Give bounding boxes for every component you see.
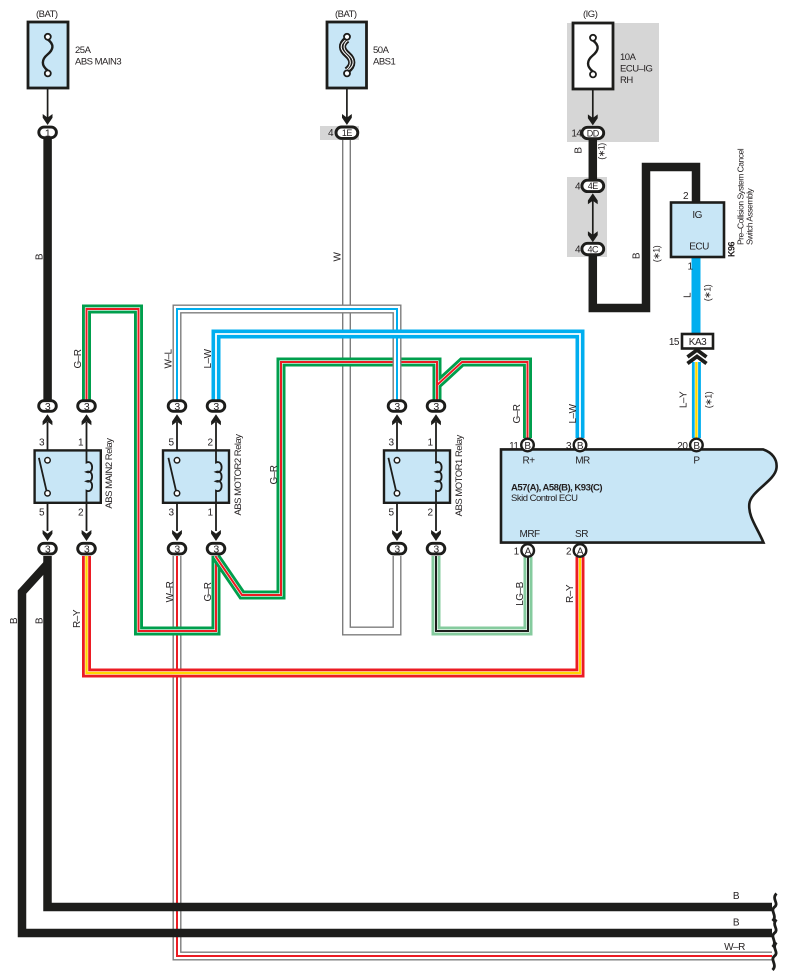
wire G-R hairpin: ABS MAIN2 relay pin 1 up, over, down to ABS MOTOR2 relay pin 1 (bottom) [87, 309, 217, 631]
wire LG-B from Skid Control ECU MRF down, U-turn to ABS MOTOR1 relay pin 2 [436, 556, 528, 631]
break symbol wire W-R right edge [773, 943, 777, 971]
Skid Control ECU box A57(A) A58(B) K93(C) [501, 449, 777, 542]
svg-text:ECU–IG: ECU–IG [620, 64, 652, 75]
shield: connector 1E gray background [320, 126, 359, 140]
svg-text:B: B [34, 253, 45, 260]
wire L from Pre-Collision switch pin 1 to connector KA3 [692, 256, 701, 334]
fuse 50A ABS1 [327, 9, 396, 88]
ECU pin 3 B (MR) [566, 439, 586, 452]
wire L-W from ABS MOTOR2 relay pin 2 up and over to Skid Control ECU MR [216, 334, 580, 438]
svg-text:G–R: G–R [73, 349, 84, 368]
svg-text:3: 3 [213, 544, 219, 556]
svg-text:B: B [524, 441, 531, 452]
svg-text:RH: RH [620, 75, 633, 86]
svg-text:IG: IG [692, 210, 702, 221]
wire B ground branch 2 (outer) diagonal splice to right edge [22, 564, 772, 933]
svg-text:(∗1): (∗1) [702, 284, 712, 301]
svg-text:LG–B: LG–B [515, 581, 526, 605]
fuse 10A ECU-IG RH [573, 9, 652, 89]
svg-text:B: B [577, 441, 584, 452]
svg-text:(IG): (IG) [583, 9, 598, 20]
svg-text:4E: 4E [588, 181, 599, 191]
svg-text:W–R: W–R [724, 942, 745, 953]
ECU pin 2 A (SR) [566, 544, 586, 557]
svg-text:Skid Control ECU: Skid Control ECU [511, 493, 578, 504]
svg-text:20: 20 [677, 441, 688, 452]
svg-text:W–L: W–L [163, 349, 174, 369]
arrow into connector 1 [43, 114, 53, 125]
svg-text:G–R: G–R [269, 465, 280, 484]
svg-text:ABS MOTOR2 Relay: ABS MOTOR2 Relay [233, 434, 244, 516]
svg-text:1: 1 [45, 127, 51, 139]
svg-text:KA3: KA3 [689, 337, 707, 348]
ECU pin 11 B (R+) [509, 439, 534, 452]
svg-text:R–Y: R–Y [565, 584, 576, 603]
svg-text:14: 14 [571, 128, 582, 139]
svg-text:ECU: ECU [689, 242, 709, 253]
svg-text:W–R: W–R [165, 581, 176, 602]
svg-text:W: W [332, 251, 343, 261]
svg-text:B: B [34, 617, 45, 624]
svg-text:3: 3 [174, 544, 180, 556]
svg-text:B: B [733, 891, 740, 902]
svg-text:ABS MOTOR1 Relay: ABS MOTOR1 Relay [454, 435, 465, 517]
wire R-Y from ABS MAIN2 relay pin 2 down, across to Skid Control ECU SR [87, 556, 581, 673]
leader wire from fuse ABS1 [346, 77, 348, 119]
svg-text:3: 3 [45, 544, 51, 556]
arrow into connector DD [588, 114, 598, 125]
relay ABS MOTOR2 [163, 414, 244, 541]
svg-text:ABS1: ABS1 [373, 57, 396, 68]
svg-text:3: 3 [84, 544, 90, 556]
fuse 25A ABS MAIN3 [28, 9, 121, 88]
svg-text:(∗1): (∗1) [596, 143, 606, 160]
link wire between 4E and 4C [592, 200, 594, 236]
svg-text:B: B [631, 252, 642, 259]
ECU pin 20 B (P) [677, 439, 702, 452]
svg-text:3: 3 [394, 544, 400, 556]
svg-text:A: A [577, 546, 584, 557]
relay ABS MAIN2 [35, 414, 115, 541]
wire B from connector 4C to Pre-Collision switch pin 2 [593, 167, 696, 308]
svg-text:Switch Assembly: Switch Assembly [745, 187, 755, 245]
wire W from fuse ABS1 connector 1E down, U-turn to ABS MOTOR1 relay pin 5 [347, 140, 398, 631]
svg-text:15: 15 [669, 337, 680, 348]
svg-text:L–W: L–W [568, 403, 579, 423]
connector 1 [39, 127, 57, 139]
svg-text:L–W: L–W [203, 348, 214, 368]
svg-text:A: A [525, 546, 532, 557]
wire B from fuse ABS MAIN3 to ABS MAIN2 relay pin 3 [43, 139, 52, 400]
svg-text:(BAT): (BAT) [36, 9, 58, 20]
svg-text:B: B [733, 918, 740, 929]
svg-text:MRF: MRF [520, 529, 541, 540]
svg-text:10A: 10A [620, 52, 637, 63]
wire B from connector DD to connector 4E [589, 139, 598, 180]
arrow up into connector 4E [588, 193, 598, 204]
svg-text:MR: MR [575, 455, 590, 466]
svg-text:25A: 25A [75, 45, 92, 56]
connector 4C pin 4 [575, 243, 604, 255]
Pre-Collision System Cancel Switch Assembly K96 box [671, 148, 755, 272]
svg-text:R+: R+ [522, 455, 535, 466]
ECU pin 1 A (MRF) [514, 544, 534, 557]
leader wire from fuse ABS MAIN3 [47, 77, 49, 119]
wire L-Y from connector KA3 to Skid Control ECU P [692, 362, 701, 438]
svg-text:3: 3 [433, 544, 439, 556]
svg-text:R–Y: R–Y [72, 609, 83, 628]
svg-text:G–R: G–R [512, 404, 523, 423]
connector 3 ovals above/below ABS MOTOR2 relay [168, 401, 225, 556]
svg-text:DD: DD [587, 128, 600, 138]
leader wire from fuse ECU-IG [592, 78, 594, 119]
svg-text:ABS MAIN3: ABS MAIN3 [75, 57, 121, 68]
break symbol wire B2 right edge [773, 920, 777, 948]
wire G-R branch: ABS MOTOR2 relay pin 1 to ABS MOTOR1 relay pin 1 and Skid Control ECU R+ [216, 362, 528, 595]
svg-text:B: B [693, 441, 700, 452]
shield: ECU-IG fuse block gray background [567, 23, 659, 142]
svg-text:B: B [573, 147, 584, 154]
svg-text:11: 11 [509, 441, 519, 452]
svg-text:1E: 1E [342, 128, 353, 138]
svg-text:3: 3 [84, 401, 90, 413]
connector 4E pin 4 [575, 180, 604, 192]
break symbol wire B1 right edge [773, 894, 777, 922]
arrow down into connector 4C [588, 231, 598, 242]
wire W-L from ABS MOTOR2 relay pin 5 up and over to ABS MOTOR1 relay pin 3 [177, 309, 397, 400]
svg-text:4C: 4C [588, 244, 600, 254]
svg-text:3: 3 [174, 401, 180, 413]
svg-text:3: 3 [213, 401, 219, 413]
arrow into connector 1E [342, 114, 352, 125]
connector 1E pin 4 [328, 127, 358, 139]
svg-text:(BAT): (BAT) [335, 9, 357, 20]
svg-text:3: 3 [433, 401, 439, 413]
shield: connector 4E/4C gray background [567, 177, 607, 257]
svg-text:B: B [9, 617, 20, 624]
svg-text:G–R: G–R [203, 582, 214, 601]
double chevron below KA3 [688, 350, 707, 364]
svg-text:SR: SR [575, 529, 588, 540]
svg-text:3: 3 [394, 401, 400, 413]
relay ABS MOTOR1 [384, 414, 465, 541]
connector 3 ovals above/below ABS MOTOR1 relay [388, 401, 445, 556]
svg-text:50A: 50A [373, 45, 390, 56]
wire B ground branch 1 (inner) from splice to right edge [48, 556, 773, 907]
wire W-R from ABS MOTOR2 relay pin 3 down then right to edge [177, 556, 772, 956]
connector DD pin 14 [571, 127, 603, 139]
svg-text:ABS MAIN2 Relay: ABS MAIN2 Relay [104, 438, 115, 509]
svg-text:(∗1): (∗1) [703, 391, 713, 408]
connector KA3 pin 15 [669, 334, 713, 349]
connector 3 ovals above/below ABS MAIN2 relay [39, 401, 96, 556]
svg-text:3: 3 [45, 401, 51, 413]
svg-text:L–Y: L–Y [678, 391, 689, 408]
svg-text:P: P [693, 455, 700, 466]
svg-text:(∗1): (∗1) [651, 245, 661, 262]
